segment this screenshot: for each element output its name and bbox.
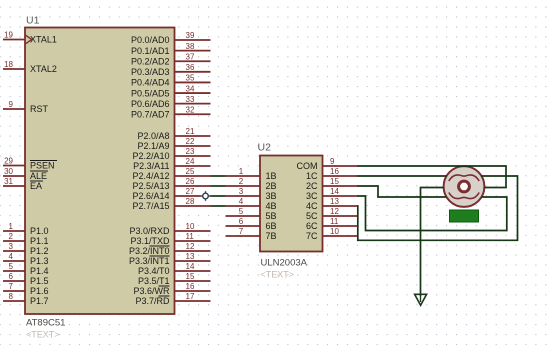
svg-text:26: 26 [186,177,195,186]
wire P2.5 to U2 2B [211,185,226,187]
svg-text:P1.3: P1.3 [30,256,49,266]
overline for ALE [30,170,48,172]
overline for P3.3/INT1 [150,255,170,257]
svg-text:P3.0/RXD: P3.0/RXD [129,226,170,236]
svg-text:4C: 4C [306,201,318,211]
svg-text:7B: 7B [266,231,277,241]
svg-text:P3.2/INT0: P3.2/INT0 [129,246,170,256]
svg-text:38: 38 [186,42,195,51]
microcontroller U1 AT89C51 body [25,28,175,315]
svg-text:2: 2 [239,177,244,186]
svg-text:30: 30 [4,167,13,176]
svg-text:3: 3 [9,242,14,251]
svg-text:AT89C51: AT89C51 [26,318,65,329]
svg-text:1B: 1B [266,171,277,181]
svg-text:P3.4/T0: P3.4/T0 [138,266,170,276]
svg-text:16: 16 [330,167,339,176]
svg-text:27: 27 [186,187,195,196]
U1 pin 1 (P1.0) stub [3,230,25,232]
U2 pin 7 (7B) stub [226,235,261,237]
U2 pin 6 (6B) stub [226,225,261,227]
motor top winding arc [449,175,479,181]
svg-text:5: 5 [239,207,244,216]
U1 pin 17 (P3.7/RD) stub [175,300,211,302]
svg-text:12: 12 [330,207,339,216]
svg-text:P2.2/A10: P2.2/A10 [132,151,169,161]
svg-text:22: 22 [186,137,195,146]
U1 pin 28 (P2.7/A15) stub [175,205,211,207]
svg-text:P0.2/AD2: P0.2/AD2 [131,56,170,66]
svg-text:28: 28 [186,197,195,206]
U1 pin 23 (P2.2/A10) stub [175,155,211,157]
svg-text:16: 16 [186,282,195,291]
U1 pin 11 (P3.1/TXD) stub [175,240,211,242]
svg-text:11: 11 [330,217,339,226]
U1 pin 2 (P1.1) stub [3,240,25,242]
svg-text:34: 34 [186,84,195,93]
wire P2.6 to U2 3B [211,195,226,197]
motor value green label box [450,210,479,222]
svg-text:4: 4 [9,252,14,261]
svg-text:P2.7/A15: P2.7/A15 [132,201,169,211]
U2 pin 2 (2B) stub [226,185,261,187]
overline for P3.6/WR [159,285,170,287]
svg-text:ULN2003A: ULN2003A [261,258,308,269]
svg-text:3B: 3B [266,191,277,201]
svg-text:P0.4/AD4: P0.4/AD4 [131,78,170,88]
svg-text:COM: COM [297,161,318,171]
svg-text:6: 6 [239,217,244,226]
svg-text:PSEN: PSEN [30,161,55,171]
overline for PSEN [30,160,57,162]
svg-text:33: 33 [186,95,195,104]
ground symbol [415,294,427,305]
svg-text:P3.3/INT1: P3.3/INT1 [129,256,170,266]
U1 pin 13 (P3.3/INT1) stub [175,260,211,262]
U1 pin 31 (EA) stub [3,185,25,187]
svg-text:5B: 5B [266,211,277,221]
U1 pin 18 (XTAL2) stub [3,68,25,70]
U1 pin 33 (P0.6/AD6) stub [175,103,211,105]
U2 pin 9 (COM) stub [323,165,358,167]
svg-text:2B: 2B [266,181,277,191]
svg-text:5: 5 [9,262,14,271]
svg-text:P1.5: P1.5 [30,276,49,286]
U1 pin 30 (ALE) stub [3,175,25,177]
svg-text:19: 19 [4,31,13,40]
svg-text:9: 9 [330,157,335,166]
svg-text:15: 15 [330,177,339,186]
U2 pin 16 (1C) stub [323,175,358,177]
svg-text:P2.0/A8: P2.0/A8 [137,131,169,141]
U1 pin 32 (P0.7/AD7) stub [175,113,211,115]
svg-text:13: 13 [330,197,339,206]
svg-text:14: 14 [186,262,195,271]
stepper motor M1 body [444,166,485,207]
svg-text:P1.7: P1.7 [30,296,49,306]
svg-text:12: 12 [186,242,195,251]
U1 pin 34 (P0.5/AD5) stub [175,92,211,94]
svg-text:P3.7/RD: P3.7/RD [135,296,170,306]
svg-text:1: 1 [9,222,14,231]
overline for P3.2/INT0 [150,245,170,247]
overline for EA [30,180,43,182]
svg-text:P0.1/AD1: P0.1/AD1 [131,46,170,56]
wire 3C to motor right-bottom [357,196,507,231]
U1 pin 25 (P2.4/A12) stub [175,175,211,177]
motor bottom winding arc [449,193,479,199]
U1 XTAL1 clock marker [26,35,32,44]
svg-text:24: 24 [186,157,195,166]
svg-text:4: 4 [239,197,244,206]
svg-text:P2.4/A12: P2.4/A12 [132,171,169,181]
svg-text:11: 11 [186,232,195,241]
svg-text:P1.6: P1.6 [30,286,49,296]
driver U2 ULN2003A body [260,156,323,252]
U2 pin 4 (4B) stub [226,205,261,207]
wire P2.7 to U2 4B [211,205,226,207]
svg-text:14: 14 [330,187,339,196]
U1 pin 16 (P3.6/WR) stub [175,290,211,292]
svg-text:32: 32 [186,105,195,114]
svg-text:XTAL1: XTAL1 [30,35,57,45]
svg-text:P0.0/AD0: P0.0/AD0 [131,35,170,45]
svg-text:U1: U1 [26,15,40,27]
node marker on wire 3B [201,191,211,201]
U2 pin 1 (1B) stub [226,175,261,177]
svg-text:10: 10 [186,222,195,231]
U1 pin 14 (P3.4/T0) stub [175,270,211,272]
svg-text:13: 13 [186,252,195,261]
wire 1C to motor left-top [357,175,447,177]
svg-text:15: 15 [186,272,195,281]
svg-text:17: 17 [186,292,195,301]
overline for P3.7/RD [159,295,170,297]
svg-text:P2.5/A13: P2.5/A13 [132,181,169,191]
svg-text:P3.6/WR: P3.6/WR [133,286,170,296]
svg-text:P1.2: P1.2 [30,246,49,256]
svg-text:36: 36 [186,63,195,72]
U2 pin 11 (6C) stub [323,225,358,227]
svg-text:XTAL2: XTAL2 [30,64,57,74]
svg-text:5C: 5C [306,211,318,221]
U1 pin 29 (PSEN) stub [3,165,25,167]
svg-text:6C: 6C [306,221,318,231]
svg-text:21: 21 [186,127,195,136]
U1 pin 37 (P0.2/AD2) stub [175,60,211,62]
svg-text:23: 23 [186,147,195,156]
svg-text:P1.4: P1.4 [30,266,49,276]
U1 pin 27 (P2.6/A14) stub [175,195,211,197]
U1 pin 9 (RST) stub [3,108,25,110]
svg-text:P1.1: P1.1 [30,236,49,246]
wire P2.4 to U2 1B [211,175,226,177]
svg-text:10: 10 [330,227,339,236]
U2 pin 12 (5C) stub [323,215,358,217]
svg-text:4B: 4B [266,201,277,211]
svg-text:1C: 1C [306,171,318,181]
U1 pin 26 (P2.5/A13) stub [175,185,211,187]
U1 pin 19 (XTAL1) stub [3,39,25,41]
U2 pin 13 (4C) stub [323,205,358,207]
U2 pin 3 (3B) stub [226,195,261,197]
U1 pin 35 (P0.4/AD4) stub [175,81,211,83]
svg-text:3C: 3C [306,191,318,201]
U1 pin 36 (P0.3/AD3) stub [175,71,211,73]
svg-text:31: 31 [4,177,13,186]
svg-text:29: 29 [4,157,13,166]
motor shaft donut [459,181,470,192]
U1 pin 38 (P0.1/AD1) stub [175,50,211,52]
U1 pin 7 (P1.6) stub [3,290,25,292]
svg-text:2C: 2C [306,181,318,191]
U1 pin 5 (P1.4) stub [3,270,25,272]
U1 pin 4 (P1.3) stub [3,260,25,262]
wire motor left-common to ground [421,188,444,297]
U1 pin 39 (P0.0/AD0) stub [175,39,211,41]
svg-text:2: 2 [9,232,14,241]
U1 pin 24 (P2.3/A11) stub [175,165,211,167]
wire COM to motor right-common [357,166,506,188]
svg-text:<TEXT>: <TEXT> [261,270,295,280]
svg-text:U2: U2 [258,142,272,154]
wire 2C to motor left-bottom [357,186,447,197]
svg-text:7: 7 [239,227,244,236]
svg-text:RST: RST [30,104,49,114]
U1 pin 3 (P1.2) stub [3,250,25,252]
svg-text:ALE: ALE [30,171,47,181]
svg-text:1: 1 [239,167,244,176]
svg-text:3: 3 [239,187,244,196]
svg-text:EA: EA [30,181,42,191]
svg-text:25: 25 [186,167,195,176]
U1 pin 8 (P1.7) stub [3,300,25,302]
U1 pin 15 (P3.5/T1) stub [175,280,211,282]
svg-text:7: 7 [9,282,14,291]
svg-text:P3.5/T1: P3.5/T1 [138,276,170,286]
svg-text:P1.0: P1.0 [30,226,49,236]
svg-text:<TEXT>: <TEXT> [26,330,60,340]
svg-text:P0.3/AD3: P0.3/AD3 [131,67,170,77]
svg-text:9: 9 [9,100,14,109]
svg-text:35: 35 [186,74,195,83]
U2 pin 10 (7C) stub [323,235,358,237]
svg-text:P0.7/AD7: P0.7/AD7 [131,109,170,119]
U2 pin 5 (5B) stub [226,215,261,217]
U1 pin 12 (P3.2/INT0) stub [175,250,211,252]
svg-text:P2.3/A11: P2.3/A11 [133,161,169,171]
svg-text:7C: 7C [306,231,318,241]
U1 pin 22 (P2.1/A9) stub [175,145,211,147]
svg-text:6: 6 [9,272,14,281]
svg-text:37: 37 [186,52,195,61]
svg-text:39: 39 [186,31,195,40]
U1 pin 6 (P1.5) stub [3,280,25,282]
svg-text:8: 8 [9,292,14,301]
wire 4C to motor right-top [357,176,518,240]
svg-text:P0.5/AD5: P0.5/AD5 [131,88,170,98]
U2 pin 15 (2C) stub [323,185,358,187]
svg-text:P3.1/TXD: P3.1/TXD [130,236,170,246]
svg-text:6B: 6B [266,221,277,231]
svg-text:P0.6/AD6: P0.6/AD6 [131,99,170,109]
svg-text:P2.1/A9: P2.1/A9 [137,141,169,151]
svg-text:P2.6/A14: P2.6/A14 [132,191,169,201]
U1 pin 10 (P3.0/RXD) stub [175,230,211,232]
U1 pin 21 (P2.0/A8) stub [175,135,211,137]
svg-text:18: 18 [4,60,13,69]
U2 pin 14 (3C) stub [323,195,358,197]
